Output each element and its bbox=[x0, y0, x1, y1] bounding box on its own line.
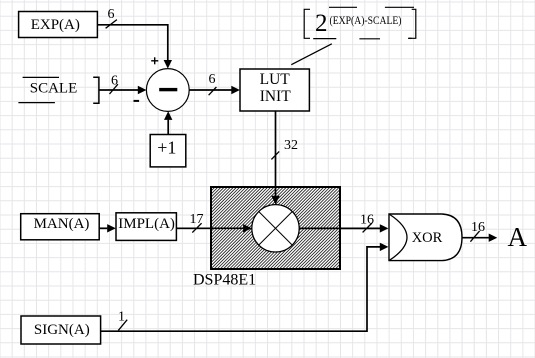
annotation formula 2^(EXP(A)-SCALE) bbox=[315, 10, 402, 37]
svg-text:6: 6 bbox=[209, 72, 216, 87]
svg-text:A: A bbox=[508, 222, 528, 252]
block LUT INIT bbox=[240, 69, 309, 111]
svg-text:INIT: INIT bbox=[260, 88, 292, 105]
bus width slash and label 32 bbox=[271, 138, 298, 159]
minus bar inside subtractor bbox=[159, 88, 177, 91]
label SCALE with overline and underline bbox=[18, 77, 77, 102]
bus width slash and label 17 bbox=[190, 212, 204, 233]
wire IMPL(A) to multiplier (17-bit) bbox=[176, 224, 251, 232]
block MAN(A) bbox=[21, 214, 100, 240]
subtractor circle bbox=[146, 69, 189, 112]
leader line from annotation to LUT INIT bbox=[291, 44, 332, 65]
wire EXP(A) to subtractor + input bbox=[97, 25, 172, 69]
bus width slash and label 16 into XOR bbox=[360, 213, 374, 233]
wire SIGN(A) to XOR second input bbox=[101, 243, 389, 332]
svg-text:SIGN(A): SIGN(A) bbox=[34, 322, 90, 338]
XOR gate bbox=[389, 214, 462, 261]
svg-text:EXP(A): EXP(A) bbox=[31, 17, 80, 33]
svg-text:6: 6 bbox=[108, 7, 115, 22]
svg-text:+1: +1 bbox=[157, 138, 176, 158]
svg-text:16: 16 bbox=[360, 213, 374, 228]
block EXP(A) bbox=[19, 12, 98, 38]
svg-text:(EXP(A)-SCALE): (EXP(A)-SCALE) bbox=[330, 13, 402, 27]
annotation dashed box around 2^(EXP(A)-SCALE) bbox=[304, 7, 416, 39]
bus width slash and label 6 on SCALE wire bbox=[110, 73, 119, 94]
svg-text:MAN(A): MAN(A) bbox=[34, 216, 90, 232]
multiplier circle inside DSP48E1 bbox=[252, 205, 299, 252]
bus width slash and label 16 on output wire bbox=[470, 220, 485, 242]
wire MAN(A) to IMPL(A) bbox=[99, 224, 116, 232]
bus width slash and label 1 on SIGN(A) wire bbox=[118, 309, 127, 330]
block SIGN(A) bbox=[21, 316, 101, 344]
bus width slash and label 6 on LUT INIT wire bbox=[209, 72, 217, 95]
wire subtractor to LUT INIT bbox=[189, 86, 240, 94]
wire LUT INIT to multiplier (32-bit) bbox=[271, 111, 279, 204]
wire XOR output to A (16-bit) bbox=[462, 234, 497, 242]
svg-text:XOR: XOR bbox=[412, 230, 443, 246]
svg-text:6: 6 bbox=[111, 73, 118, 88]
DSP48E1 hatched block bbox=[211, 187, 340, 269]
svg-text:32: 32 bbox=[284, 138, 298, 153]
bracket after SCALE bbox=[93, 77, 99, 103]
svg-text:2: 2 bbox=[315, 10, 328, 37]
bus width slash and label 6 on EXP(A) wire bbox=[106, 7, 117, 28]
svg-text:16: 16 bbox=[471, 220, 485, 235]
wire SCALE to subtractor left input bbox=[99, 86, 146, 94]
svg-text:LUT: LUT bbox=[260, 71, 291, 88]
wire multiplier to XOR (16-bit) bbox=[299, 224, 388, 232]
plus sign at subtractor top input bbox=[151, 57, 158, 64]
svg-text:17: 17 bbox=[190, 212, 204, 227]
svg-text:SCALE: SCALE bbox=[30, 81, 78, 97]
svg-text:DSP48E1: DSP48E1 bbox=[193, 271, 256, 288]
block +1 bbox=[150, 135, 186, 167]
block IMPL(A) bbox=[116, 213, 176, 241]
svg-text:1: 1 bbox=[118, 309, 125, 324]
svg-text:IMPL(A): IMPL(A) bbox=[118, 216, 175, 232]
minus sign at subtractor left input bbox=[134, 100, 140, 102]
wire +1 to subtractor bottom input bbox=[164, 111, 172, 134]
